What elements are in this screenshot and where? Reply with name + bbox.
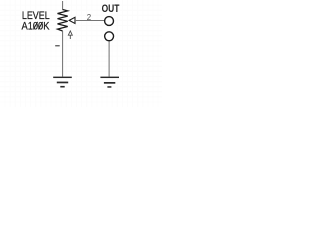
connector pad: OUT tip (top circle)	[105, 17, 114, 26]
background	[0, 0, 162, 107]
small up arrow below pot body	[68, 31, 72, 39]
potentiometer wiper arrow (points left into zigzag)	[69, 17, 75, 23]
wire: sleeve to ground	[108, 41, 110, 76]
faint schematic grid	[0, 0, 162, 107]
ground symbol (right, jack sleeve)	[100, 77, 119, 88]
svg-text:OUT: OUT	[102, 3, 120, 15]
connector pad: OUT sleeve (bottom circle)	[105, 32, 114, 41]
label A100K (pot value, slashed zeros)	[22, 20, 51, 32]
svg-text:A100K: A100K	[22, 20, 51, 32]
potentiometer R1 zigzag body	[58, 10, 68, 32]
wire: wiper to OUT jack tip	[75, 20, 104, 22]
wire: pot top lead	[62, 1, 64, 10]
pin number 1 (rotated, appears as dash)	[55, 45, 60, 46]
ground symbol (left, pot pin 1)	[53, 77, 72, 88]
wire: pot bottom lead to ground	[62, 31, 64, 77]
